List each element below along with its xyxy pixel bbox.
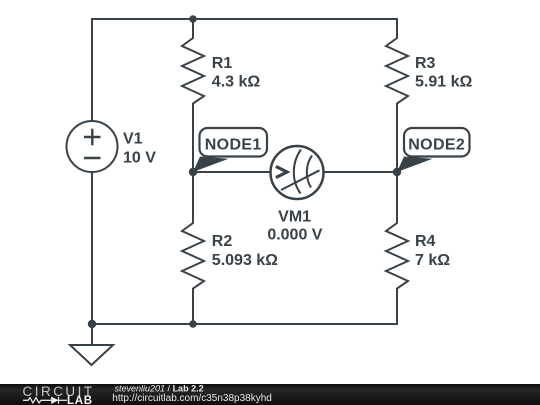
svg-text:NODE1: NODE1 [205,137,262,154]
svg-text:http://circuitlab.com/c35n38p3: http://circuitlab.com/c35n38p38kyhd [112,393,272,404]
svg-text:5.093 kΩ: 5.093 kΩ [212,252,278,269]
svg-text:VM1: VM1 [278,208,311,225]
svg-text:5.91 kΩ: 5.91 kΩ [415,74,472,91]
svg-text:R4: R4 [415,233,436,250]
svg-text:7 kΩ: 7 kΩ [415,252,450,269]
svg-text:stevenliu201 / Lab 2.2: stevenliu201 / Lab 2.2 [115,384,204,394]
svg-text:R1: R1 [212,55,233,72]
svg-text:V1: V1 [123,131,143,148]
svg-text:10 V: 10 V [123,150,156,167]
svg-text:4.3 kΩ: 4.3 kΩ [212,74,261,91]
svg-text:0.000 V: 0.000 V [267,226,322,243]
svg-text:R2: R2 [212,233,233,250]
svg-text:NODE2: NODE2 [408,137,465,154]
svg-text:LAB: LAB [67,395,93,405]
svg-text:R3: R3 [415,55,436,72]
